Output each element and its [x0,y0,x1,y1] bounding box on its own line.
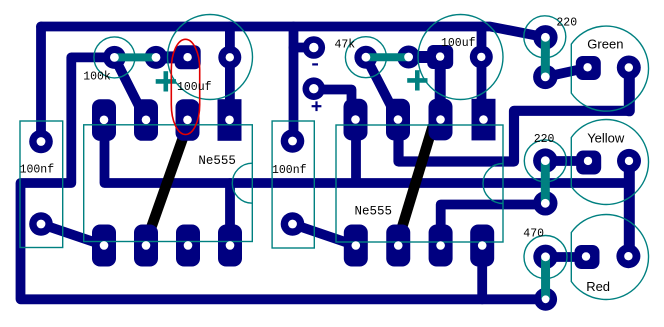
IC U2 pin 1 pad [470,225,494,267]
wire plus pad elbow to U2 pad1 [314,90,352,116]
wire Green ring vertical [624,68,635,111]
IC U1 pin 3 pad [134,225,158,267]
capacitor C2 + square pad [175,45,201,69]
wire R1 left elbow to left/bottom border rail [21,57,546,299]
capacitor C4 + square pad [427,45,453,69]
node minus mark [312,63,318,65]
resistor R1 100k body [114,53,156,61]
wire R7 top pad to Red square [546,252,583,262]
capacitor C2 - ring pad [218,46,241,69]
IC U1 Ne555 outline [84,125,253,242]
wire R5 bottom pad to Green square [545,69,584,77]
resistor R1 pad 2 [145,46,168,69]
IC U1 pin 2 pad [176,225,200,267]
LED D3 cathode ring pad [616,244,640,268]
wire top rail down through C2 ring to U1 pad4 [225,27,235,121]
wire U1 pin1 down + long middle rail to LED column [105,135,630,183]
LED D3 anode square pad [575,245,600,269]
resistor R6 pad 2 [533,191,557,215]
capacitor C4 - ring pad [470,45,493,68]
resistor R7 470 outline circle [524,236,567,279]
IC U2 pin 4 pad [344,225,368,267]
jumper wire W1 (black) [146,126,187,243]
IC U2 Ne555 outline [336,125,503,242]
resistor R6 220 outline circle [524,140,566,182]
IC U1 pin 6 pad [134,99,158,141]
wire top corner down through C4 ring to U2 pin pad [477,27,487,120]
resistor R3 47k outline circle [345,37,386,78]
IC U2 pin 6 pad [386,99,410,141]
svg-text:100uf: 100uf [177,81,212,94]
svg-text:Green: Green [587,37,623,52]
svg-text:Yellow: Yellow [587,131,625,146]
resistor R6 pad 1 [533,148,557,172]
polarity mark + (teal) for C2 [156,70,428,91]
svg-text:100uf: 100uf [441,37,476,50]
wire Yellow ring down to Red ring [624,161,635,257]
resistor R6 220 body [541,161,550,204]
svg-text:470: 470 [523,228,544,241]
IC U2 pin 7 pad [429,99,453,141]
svg-text:100k: 100k [83,70,111,83]
LED D2 Yellow outline [571,120,648,205]
IC U2 pin 3 pad [386,225,410,267]
IC U2 notch [483,164,503,204]
wire U2 pin1 stub to middle rail [351,135,361,181]
IC U2 pin 5 pad [344,99,368,141]
LED D1 cathode ring pad [617,56,641,80]
LED D2 anode square pad [576,151,601,175]
resistor R1 100k outline circle [94,37,135,78]
wire U2 pad2 to Green LED anode path [399,111,630,162]
LED D1 anode square pad [576,56,601,80]
IC U1 notch [232,163,252,203]
resistor R5 220 outline circle [524,16,566,58]
capacitor C1 pad 2 [29,212,53,236]
IC U2 pin 2 pad [429,225,453,267]
wire R6 top pad to Yellow square [545,156,584,166]
LED D1 Green outline [571,26,648,111]
LED D3 Red outline [571,215,648,300]
capacitor C3 100nf outline [272,121,314,248]
node plus pad [303,77,326,100]
resistor R7 pad 2 [534,288,557,311]
capacitor C2 electrolytic body outline (red) [171,39,199,134]
wire U1 lower pad4 up to middle rail [225,183,235,245]
svg-text:Ne555: Ne555 [198,154,236,168]
capacitor C2 100uf outline circle [168,15,253,100]
node minus pad [303,36,326,59]
IC U1 pin 1 pad [218,225,242,267]
capacitor C1 100nf outline [20,121,63,248]
wire C3 top vertical from top rail [289,27,299,142]
wire R1 pad to U1 pin [114,57,146,120]
svg-text:100nf: 100nf [20,164,55,177]
IC U1 pin 8 square pad [218,99,242,141]
wire minus pad stub [294,43,314,53]
resistor R3 pad 1 [354,46,377,69]
wire C1 bottom pad diagonal to U1 lower pad1 [41,224,104,245]
capacitor C3 pad 1 [281,129,305,153]
node plus mark [312,101,322,111]
capacitor C1 pad 1 [29,130,53,154]
resistor R3 pad 2 [397,46,420,69]
wire R3 pad to U2 pin [366,57,398,119]
IC U1 pin 5 pad [92,99,116,141]
capacitor C4 100uf outline circle [418,15,503,100]
wire left rail down to C1 top pad [36,27,46,142]
wire C3 bottom pad diagonal to U2 lower pad1 [293,224,356,246]
LED D2 cathode ring pad [617,149,641,173]
svg-text:Ne555: Ne555 [355,205,393,219]
svg-text:220: 220 [534,133,555,146]
resistor R1 pad 1 [103,46,126,69]
resistor R5 pad 2 [533,65,557,89]
capacitor C3 pad 2 [281,212,305,236]
wire top border rail + diagonal to R5 [41,27,545,38]
polarity mark + (teal) for C4 [407,78,427,83]
svg-text:100nf: 100nf [272,164,307,177]
resistor R7 pad 1 [533,245,557,269]
svg-text:Red: Red [586,279,610,294]
svg-text:220: 220 [556,17,577,30]
IC U1 pin 7 pad [176,99,200,141]
wire U2 lower pad3 elbow to R6 bottom pad [441,205,546,226]
resistor R7 470 body [541,257,550,300]
resistor R5 pad 1 [533,25,557,49]
IC U1 pin 4 pad [92,225,116,267]
wire C4 square pad down to U2 pad3 [435,60,446,115]
resistor R3 47k body [366,53,409,61]
IC U2 pin 8 square pad [472,99,496,141]
jumper wire W2 (black) [398,126,434,243]
svg-text:47k: 47k [335,39,356,52]
wire U2 lower pad4 to bottom rail [477,248,487,299]
resistor R5 220 body [541,37,550,77]
